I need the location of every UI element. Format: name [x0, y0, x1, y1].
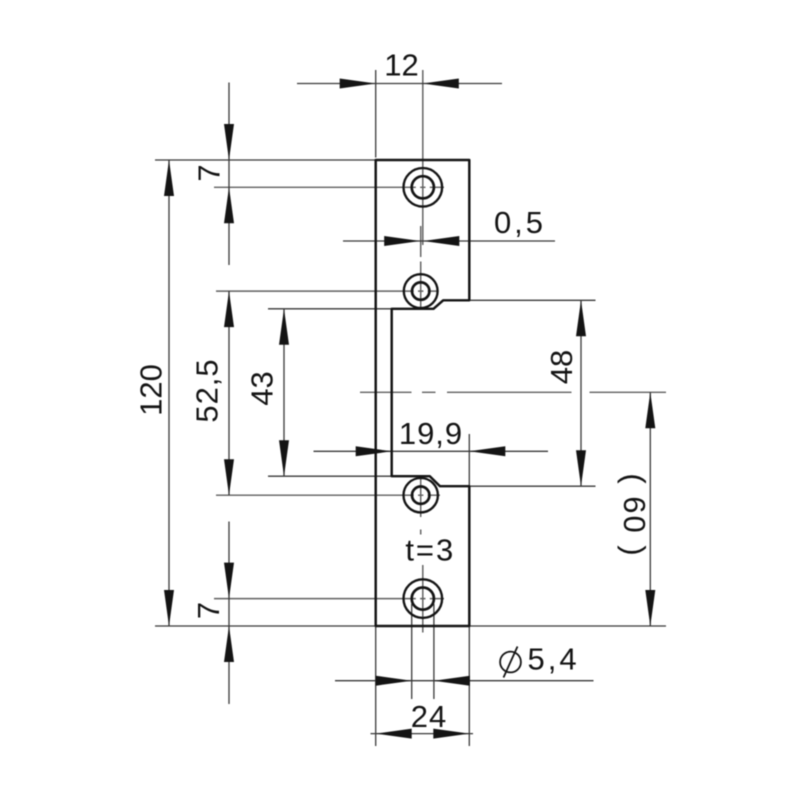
arrowhead: diam 5,4 dim left — [376, 676, 412, 686]
svg-text:48: 48 — [544, 350, 579, 384]
extension line: upper step (48 dim) — [469, 299, 595, 301]
arrowhead: 24 dim left — [376, 729, 412, 739]
arrowhead: 12 dim right — [423, 79, 459, 89]
extension line: plate top edge to left — [155, 159, 376, 161]
extension line: hole H4 right tangent (diam 5,4) — [433, 604, 435, 699]
extension line: plate left edge down (24 dim) — [375, 627, 377, 746]
arrowhead: (60) dim top — [645, 392, 655, 428]
hole H2 upper middle, outer ring — [404, 274, 438, 308]
arrowhead: 0,5 dim left — [384, 236, 420, 246]
arrowhead: 120 dim top — [164, 160, 174, 196]
extension line: plate right edge down (24 dim) — [468, 627, 470, 746]
arrowhead: 48 dim bottom — [576, 450, 586, 486]
extension line: plate bottom edge extended both sides — [155, 625, 666, 627]
hole H3 lower middle, inner ring — [412, 487, 429, 504]
dimension line: (60) — [649, 392, 651, 626]
svg-text:7: 7 — [192, 164, 227, 181]
svg-text:52,5: 52,5 — [190, 358, 225, 422]
dimension line: 120 — [168, 160, 170, 626]
extension line: plate right edge up to 19,9 dim — [468, 434, 470, 486]
arrowhead: 52,5 dim top — [224, 291, 234, 327]
centerline: lower-holes vertical axis mark at 0,5 dim and through hole H2 — [420, 226, 422, 309]
dimension line: diameter 5,4 — [335, 680, 594, 682]
svg-text:12: 12 — [384, 48, 418, 83]
centerline: latch axis horizontal dash-dot — [360, 391, 666, 393]
centerline: hole H1 vertical axis (12 / 0,5 dim) — [422, 70, 424, 245]
centerline: hole H2 horizontal axis / 52,5-dim extension — [216, 290, 438, 292]
centerline: hole H4 vertical axis below t=3 — [422, 565, 424, 633]
arrowhead: 7 top dim lower — [224, 187, 234, 223]
arrowhead: 120 dim bottom — [164, 590, 174, 626]
arrowhead: (60) dim bottom — [645, 590, 655, 626]
svg-text:19,9: 19,9 — [399, 416, 463, 451]
arrowhead: 0,5 dim right — [423, 236, 459, 246]
strike plate outline — [376, 160, 470, 626]
svg-text:t=3: t=3 — [405, 533, 455, 568]
svg-text:5,4: 5,4 — [528, 642, 580, 677]
arrowhead: 19,9 dim right — [469, 446, 505, 456]
centerline: hole H3 vertical axis — [420, 477, 422, 535]
hole H4 bottom countersunk, outer ring — [404, 579, 443, 618]
extension line: notch bottom inner edge (43 dim) — [268, 475, 392, 477]
centerline: hole H4 horizontal axis / 7-dim extension — [214, 598, 444, 600]
diameter symbol of 5,4 — [500, 652, 521, 673]
extension line: lower step (48 dim) — [469, 485, 595, 487]
svg-text:120: 120 — [134, 364, 169, 416]
centerline: hole H3 horizontal axis / 52,5-dim extension — [216, 494, 440, 496]
arrowhead: 19,9 dim left — [356, 446, 392, 456]
hole H3 lower middle, outer ring — [404, 478, 438, 512]
arrowhead: 7 top dim upper — [224, 124, 234, 160]
dimension line: 48 — [580, 300, 582, 486]
dimension line: 24 — [371, 733, 474, 735]
arrowhead: 12 dim left — [340, 79, 376, 89]
arrowhead: diam 5,4 dim right — [434, 676, 470, 686]
dimension line: 12 — [297, 83, 502, 85]
svg-text:24: 24 — [411, 699, 447, 734]
arrowhead: 43 dim top — [279, 309, 289, 345]
arrowhead: 7 bottom dim upper — [224, 563, 234, 599]
arrowhead: 48 dim top — [576, 300, 586, 336]
extension line: hole H4 left tangent (diam 5,4) — [411, 604, 413, 699]
svg-text:0,5: 0,5 — [494, 205, 546, 240]
extension line: plate left edge up (12 dim) — [375, 70, 377, 158]
centerline: hole H1 horizontal axis / 7-dim extension — [214, 186, 444, 188]
dimension line: 0,5 — [343, 240, 555, 242]
hole H2 upper middle, inner ring — [412, 282, 429, 299]
dimension line: 43 — [283, 309, 285, 476]
dimension line: 7 bottom — [228, 522, 230, 705]
dimension line: 19,9 — [314, 450, 549, 452]
arrowhead: 24 dim right — [433, 729, 469, 739]
arrowhead: 52,5 dim bottom — [224, 459, 234, 495]
dimension line: 52,5 — [228, 291, 230, 495]
svg-text:7: 7 — [191, 602, 226, 619]
hole H4 bottom countersunk, inner ring — [412, 588, 434, 610]
hole H1 top countersunk, inner ring — [412, 176, 434, 198]
extension line: notch top inner edge (43 dim) — [268, 308, 392, 310]
svg-text:( 60 ): ( 60 ) — [617, 473, 652, 557]
arrowhead: 7 bottom dim lower — [224, 626, 234, 662]
dimension line: 7 top — [228, 83, 230, 266]
hole H1 top countersunk, outer ring — [404, 168, 443, 207]
arrowhead: 43 dim bottom — [279, 440, 289, 476]
svg-text:43: 43 — [245, 371, 280, 405]
